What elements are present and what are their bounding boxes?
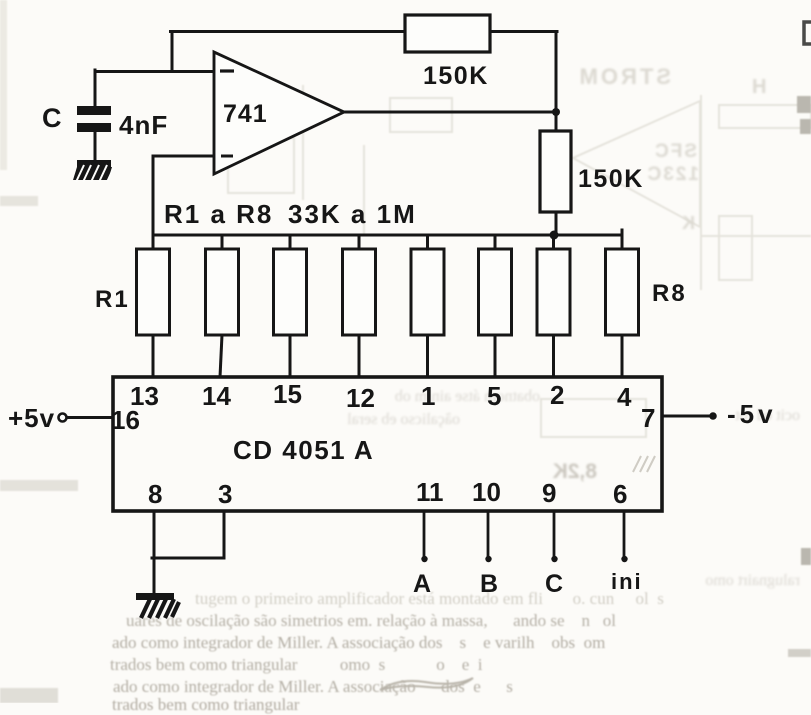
- svg-text:9: 9: [542, 478, 556, 508]
- svg-text:4: 4: [617, 382, 632, 412]
- svg-text:R8: R8: [652, 280, 687, 307]
- svg-text:R1 a R8: R1 a R8: [164, 199, 273, 229]
- svg-text:R1: R1: [95, 286, 130, 313]
- svg-text:150K: 150K: [578, 165, 644, 193]
- svg-text:-5v: -5v: [727, 399, 777, 429]
- svg-text:A: A: [413, 570, 431, 598]
- svg-text:C: C: [42, 103, 62, 133]
- svg-text:7: 7: [641, 403, 655, 433]
- svg-text:14: 14: [202, 381, 231, 411]
- svg-text:741: 741: [223, 100, 268, 128]
- svg-text:8: 8: [148, 479, 162, 509]
- svg-text:2: 2: [550, 380, 564, 410]
- svg-text:4nF: 4nF: [119, 110, 168, 140]
- svg-text:12: 12: [346, 383, 375, 413]
- svg-text:ini: ini: [611, 569, 643, 594]
- svg-text:5: 5: [487, 381, 501, 411]
- svg-text:C: C: [545, 570, 563, 598]
- svg-text:150K: 150K: [423, 62, 489, 90]
- svg-text:1: 1: [421, 381, 435, 411]
- svg-text:3: 3: [218, 479, 232, 509]
- svg-text:11: 11: [416, 477, 444, 507]
- svg-text:33K a 1M: 33K a 1M: [288, 199, 417, 229]
- svg-text:16: 16: [111, 405, 140, 435]
- svg-text:15: 15: [273, 379, 302, 409]
- svg-text:B: B: [480, 570, 498, 598]
- svg-text:6: 6: [613, 479, 627, 509]
- svg-text:10: 10: [472, 477, 501, 507]
- svg-text:CD 4051 A: CD 4051 A: [233, 435, 374, 465]
- svg-text:+5v: +5v: [8, 403, 55, 433]
